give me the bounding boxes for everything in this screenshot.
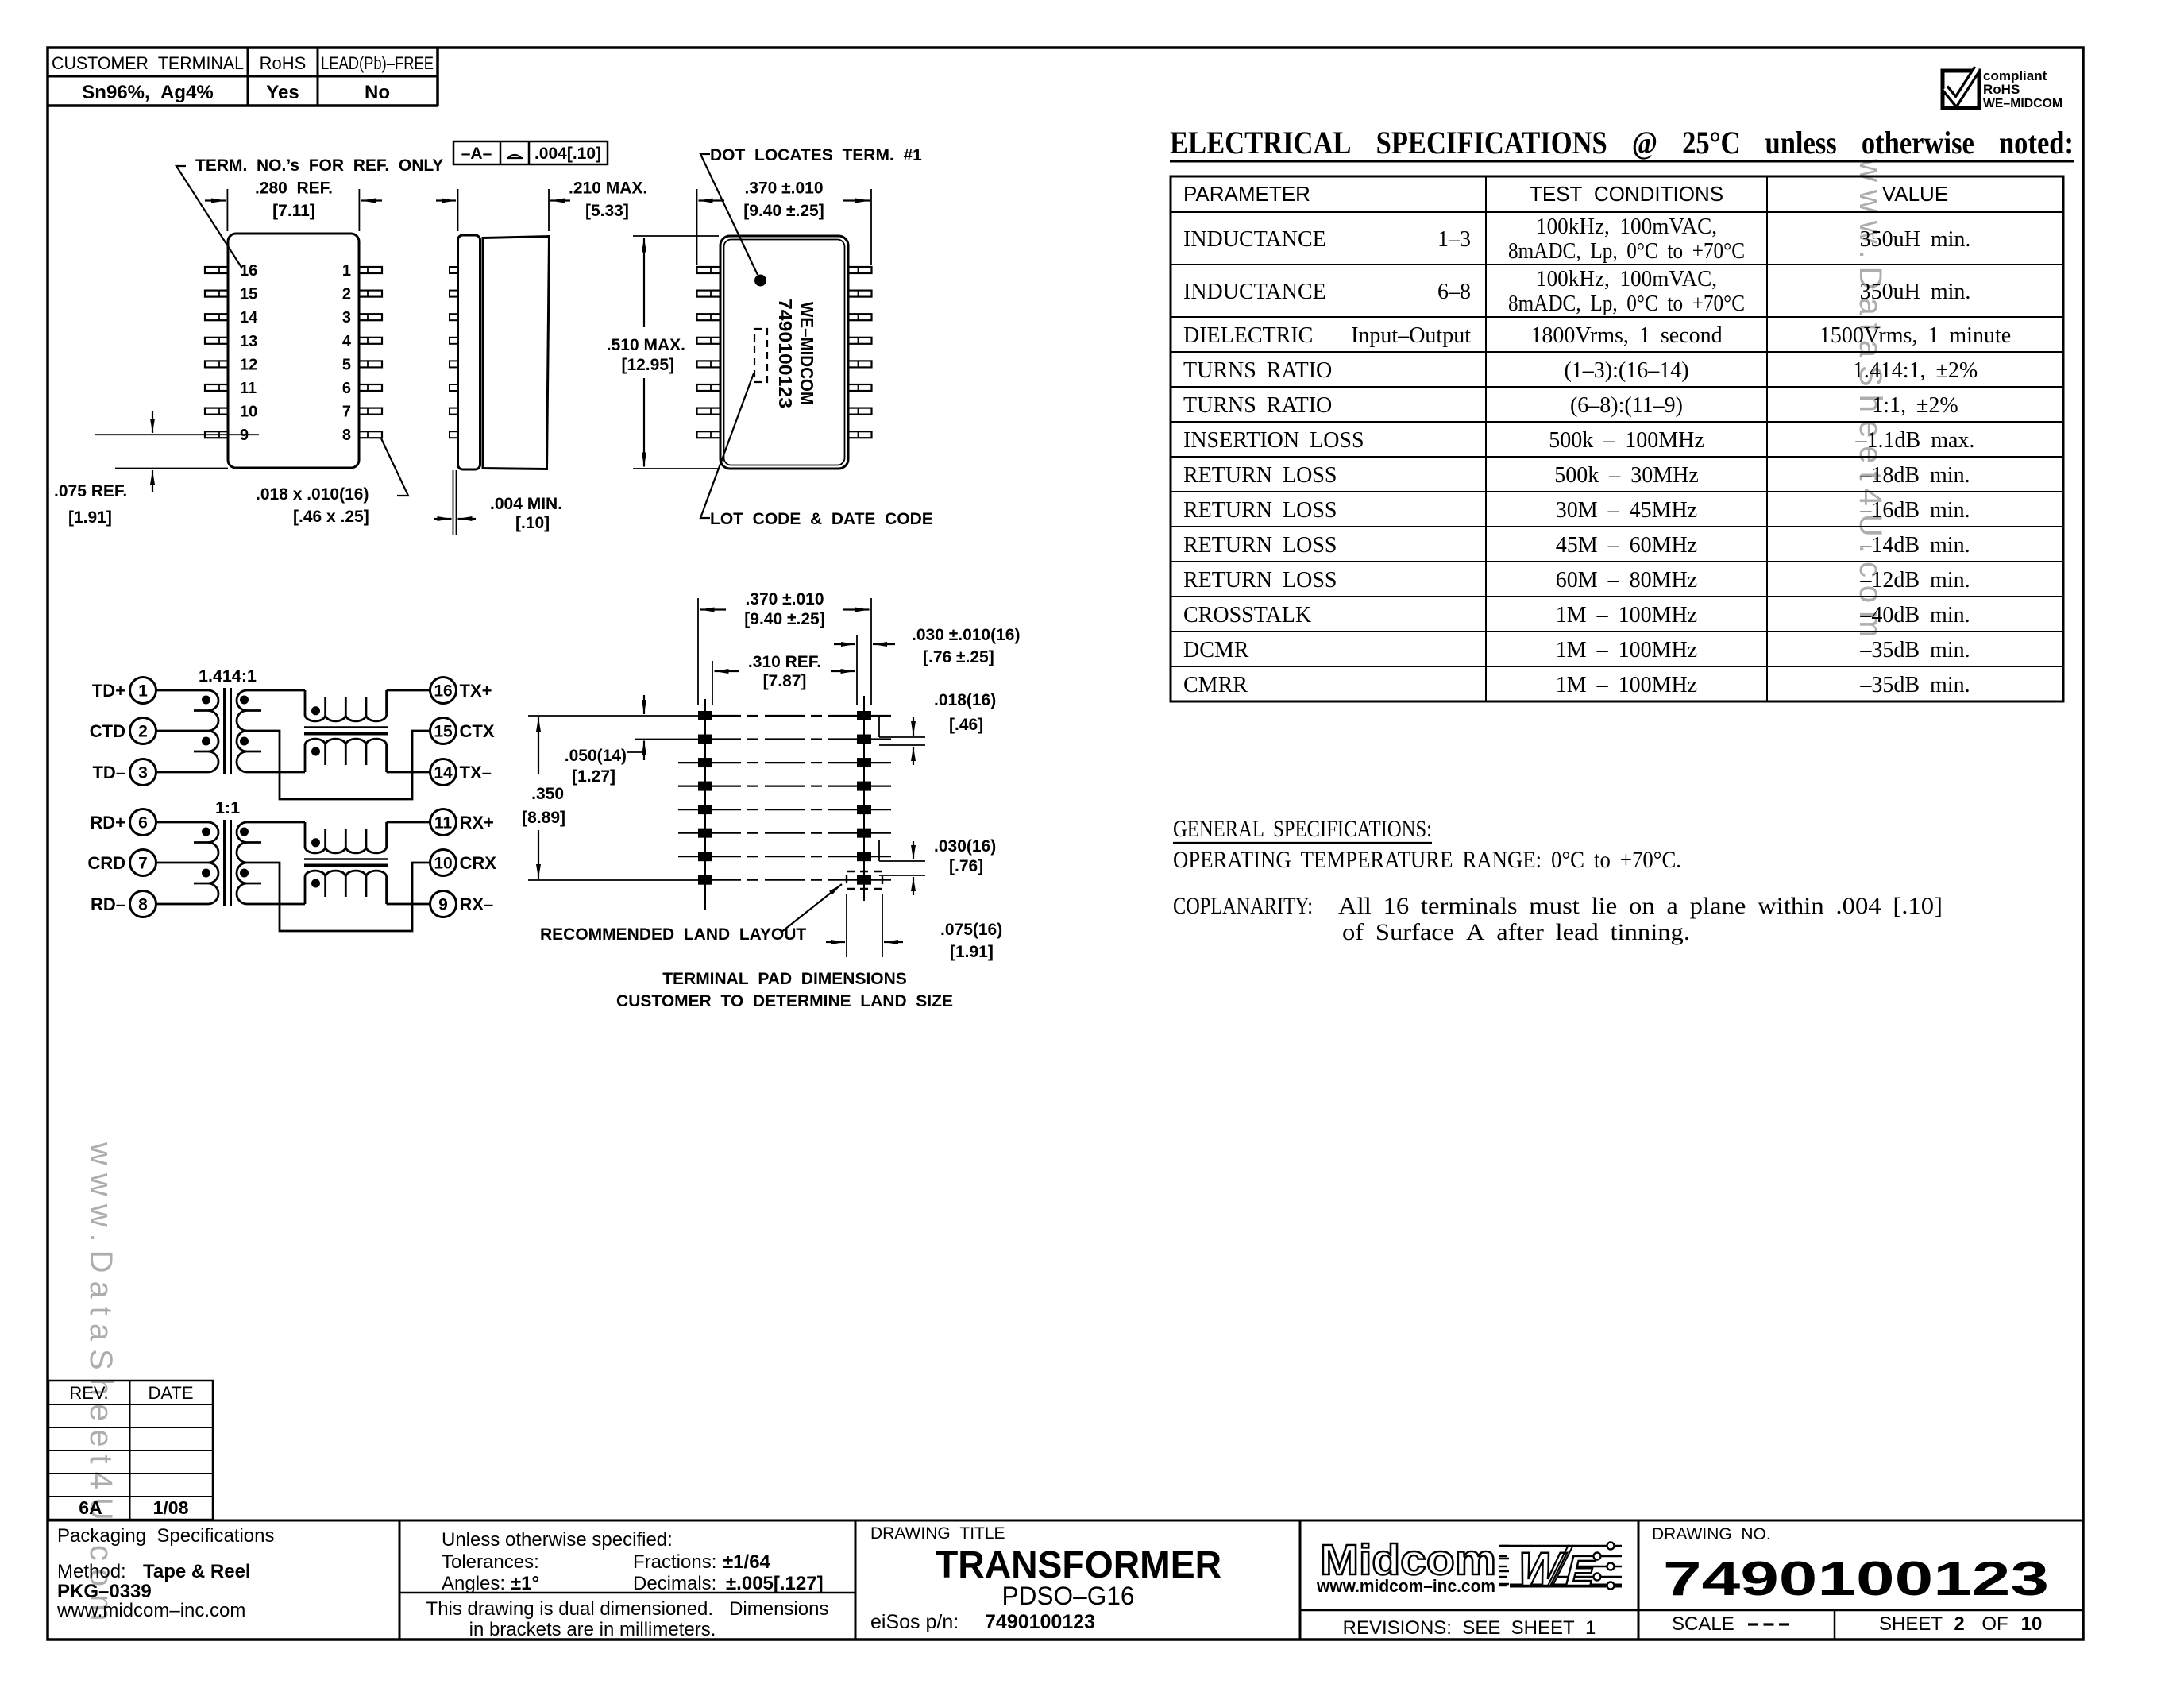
- pin 10 (CRX): [430, 850, 457, 876]
- extension lines .370 and .310: [697, 598, 699, 705]
- svg-text:REVISIONS: SEE SHEET 1: REVISIONS: SEE SHEET 1: [1343, 1617, 1596, 1639]
- svg-text:RETURN LOSS: RETURN LOSS: [1183, 533, 1337, 558]
- svg-text:.310 REF.: .310 REF.: [748, 653, 821, 671]
- svg-text:350uH min.: 350uH min.: [1860, 227, 1971, 252]
- svg-text:8: 8: [138, 896, 148, 914]
- svg-text:.030 ±.010(16): .030 ±.010(16): [912, 626, 1020, 644]
- svg-text:12: 12: [240, 356, 257, 373]
- svg-text:[.46]: [.46]: [949, 716, 983, 734]
- svg-text:TURNS RATIO: TURNS RATIO: [1183, 358, 1332, 383]
- svg-text:1:1: 1:1: [215, 798, 240, 817]
- svg-text:CRX: CRX: [460, 853, 497, 873]
- svg-text:16: 16: [434, 682, 452, 701]
- transformer secondary winding: [237, 690, 247, 772]
- pin 11 (RX+): [430, 809, 457, 836]
- view2 body right slab: [483, 237, 550, 469]
- svg-text:7490100123: 7490100123: [1663, 1552, 2049, 1605]
- land pads left column: [698, 711, 712, 720]
- svg-text:VALUE: VALUE: [1882, 182, 1948, 206]
- svg-text:1.414:1: 1.414:1: [199, 666, 257, 686]
- wire choke to pin 16: [387, 689, 430, 692]
- lot code dashed box: [754, 329, 767, 382]
- dimension .210 MAX: [457, 189, 459, 231]
- svg-text:11: 11: [240, 380, 257, 397]
- view1 pins left: [205, 267, 228, 273]
- svg-text:10: 10: [434, 855, 452, 873]
- svg-text:9: 9: [240, 427, 249, 444]
- pin 16 (TX+): [430, 678, 457, 704]
- wire center tap to pin 15: [247, 731, 430, 799]
- wire secondary bottom to choke: [247, 903, 305, 906]
- svg-text:OF: OF: [1981, 1613, 2008, 1635]
- svg-text:350uH min.: 350uH min.: [1860, 280, 1971, 304]
- svg-text:–14dB min.: –14dB min.: [1859, 533, 1970, 558]
- svg-text:13: 13: [240, 333, 257, 350]
- svg-text:.050(14): .050(14): [565, 747, 627, 765]
- svg-text:Yes: Yes: [266, 82, 299, 103]
- svg-text:±1°: ±1°: [511, 1573, 539, 1594]
- svg-text:CRD: CRD: [87, 853, 125, 873]
- RoHS compliant logo: [1943, 71, 1979, 108]
- svg-text:OPERATING TEMPERATURE RANGE: 0: OPERATING TEMPERATURE RANGE: 0°C to +70°…: [1173, 847, 1681, 873]
- land pad column verticals: [704, 699, 706, 910]
- wire pin 1 to primary: [156, 689, 209, 692]
- choke lower polarity dot: [311, 747, 320, 756]
- svg-text:100kHz, 100mVAC,: 100kHz, 100mVAC,: [1536, 267, 1717, 292]
- svg-text:Method:: Method:: [57, 1561, 126, 1582]
- svg-text:14: 14: [240, 309, 258, 326]
- svg-text:RD–: RD–: [91, 894, 125, 914]
- svg-text:COPLANARITY:: COPLANARITY:: [1173, 893, 1313, 919]
- svg-text:±1/64: ±1/64: [723, 1551, 771, 1573]
- svg-text:(1–3):(16–14): (1–3):(16–14): [1564, 358, 1688, 383]
- svg-text:16: 16: [240, 262, 257, 280]
- svg-text:DRAWING TITLE: DRAWING TITLE: [870, 1524, 1005, 1543]
- svg-text:6–8: 6–8: [1437, 280, 1471, 304]
- wire choke to pin 14: [387, 771, 430, 774]
- svg-text:.030(16): .030(16): [934, 837, 996, 856]
- view2 body left slab: [458, 235, 480, 469]
- svg-text:of Surface A after lead tinnin: of Surface A after lead tinning.: [1342, 919, 1690, 945]
- svg-text:–40dB min.: –40dB min.: [1859, 603, 1970, 628]
- svg-text:Angles:: Angles:: [442, 1573, 511, 1594]
- dimension .030 bottom: [878, 840, 880, 861]
- view1 pins right: [359, 267, 382, 273]
- wire pin 6 to primary: [156, 821, 209, 824]
- dimension .004 MIN: [453, 470, 454, 535]
- svg-text:RETURN LOSS: RETURN LOSS: [1183, 463, 1337, 488]
- dimension .050(14): [635, 739, 698, 740]
- wire pin 3 to primary: [156, 771, 209, 774]
- primary polarity dots: [202, 828, 210, 836]
- svg-text:Decimals:: Decimals:: [633, 1573, 722, 1594]
- svg-text:[7.11]: [7.11]: [272, 202, 315, 220]
- svg-text:15: 15: [434, 723, 453, 741]
- title band frame: [48, 1520, 2083, 1522]
- svg-text:1.414:1, ±2%: 1.414:1, ±2%: [1853, 358, 1978, 383]
- svg-text:CTX: CTX: [460, 721, 495, 741]
- svg-text:No: No: [365, 82, 390, 103]
- svg-text:500k – 30MHz: 500k – 30MHz: [1554, 463, 1699, 488]
- svg-text:DIELECTRIC: DIELECTRIC: [1183, 323, 1313, 348]
- transformer primary winding: [208, 822, 218, 904]
- svg-text:9: 9: [438, 896, 448, 914]
- svg-text:1: 1: [342, 262, 351, 280]
- wire pin 8 to primary: [156, 903, 209, 906]
- svg-text:2: 2: [138, 723, 148, 741]
- svg-text:–12dB min.: –12dB min.: [1859, 568, 1970, 593]
- dimension .280 REF: [226, 189, 228, 231]
- common-mode choke upper winding: [305, 822, 387, 853]
- choke upper polarity dot: [311, 838, 320, 847]
- svg-text:REV.: REV.: [69, 1383, 108, 1403]
- dimension .030 top: [834, 643, 855, 645]
- svg-text:PKG–0339: PKG–0339: [57, 1581, 152, 1602]
- svg-text:.018(16): .018(16): [934, 691, 996, 709]
- wire pin 2 to primary center tap: [156, 730, 209, 732]
- svg-text:[.10]: [.10]: [515, 514, 550, 532]
- choke core: [304, 726, 388, 728]
- svg-text:TEST CONDITIONS: TEST CONDITIONS: [1530, 182, 1723, 206]
- svg-text:[1.91]: [1.91]: [950, 943, 994, 961]
- svg-text:[5.33]: [5.33]: [585, 202, 629, 220]
- secondary polarity dots: [240, 696, 249, 705]
- svg-text:5: 5: [342, 356, 351, 373]
- svg-text:15: 15: [240, 286, 257, 303]
- svg-text:eiSos p/n:: eiSos p/n:: [870, 1611, 959, 1633]
- svg-text:.018 x .010(16): .018 x .010(16): [256, 485, 369, 504]
- wire secondary top to choke: [247, 821, 305, 824]
- wire center tap to pin 10: [247, 863, 430, 931]
- part marking text: [775, 299, 817, 408]
- svg-text:TD–: TD–: [92, 763, 125, 782]
- svg-text:–1.1dB max.: –1.1dB max.: [1855, 428, 1975, 453]
- svg-text:PARAMETER: PARAMETER: [1183, 182, 1310, 206]
- svg-text:TURNS RATIO: TURNS RATIO: [1183, 393, 1332, 418]
- svg-text:SCALE: SCALE: [1672, 1613, 1734, 1635]
- svg-text:Sn96%, Ag4%: Sn96%, Ag4%: [82, 82, 213, 103]
- dimension .018: [878, 717, 880, 737]
- svg-text:RoHS: RoHS: [1983, 82, 2020, 97]
- svg-text:TX+: TX+: [460, 681, 492, 701]
- svg-text:4: 4: [342, 333, 352, 350]
- svg-text:Input–Output: Input–Output: [1351, 323, 1471, 348]
- svg-text:Packaging Specifications: Packaging Specifications: [57, 1525, 275, 1547]
- secondary polarity dots: [240, 828, 249, 836]
- svg-text:±.005[.127]: ±.005[.127]: [726, 1573, 824, 1594]
- wire secondary top to choke: [247, 689, 305, 692]
- svg-text:[9.40 ±.25]: [9.40 ±.25]: [743, 202, 824, 220]
- svg-text:RX–: RX–: [460, 894, 494, 914]
- svg-text:.004[.10]: .004[.10]: [534, 145, 601, 163]
- svg-text:8mADC, Lp, 0°C to +70°C: 8mADC, Lp, 0°C to +70°C: [1508, 239, 1745, 264]
- svg-text:.280 REF.: .280 REF.: [255, 180, 333, 198]
- svg-text:[1.27]: [1.27]: [572, 767, 615, 786]
- svg-text:PDSO–G16: PDSO–G16: [1002, 1582, 1135, 1610]
- pin 15 (CTX): [430, 718, 457, 744]
- datum feature box -A-: [453, 141, 608, 164]
- view3 pins right: [848, 267, 872, 273]
- svg-text:TX–: TX–: [460, 763, 492, 782]
- svg-text:1M – 100MHz: 1M – 100MHz: [1556, 673, 1697, 697]
- svg-text:INDUCTANCE: INDUCTANCE: [1183, 280, 1326, 304]
- svg-text:7: 7: [342, 404, 351, 421]
- svg-text:[12.95]: [12.95]: [621, 356, 674, 374]
- primary polarity dots: [202, 696, 210, 705]
- svg-text:7490100123: 7490100123: [775, 299, 796, 408]
- svg-text:LEAD(Pb)–FREE: LEAD(Pb)–FREE: [321, 53, 434, 73]
- svg-text:[7.87]: [7.87]: [763, 672, 807, 690]
- svg-text:11: 11: [434, 814, 453, 832]
- dimension .075 REF: [95, 434, 259, 435]
- svg-text:6: 6: [138, 814, 148, 832]
- transformer secondary winding: [237, 822, 247, 904]
- svg-text:[9.40 ±.25]: [9.40 ±.25]: [744, 610, 824, 628]
- svg-text:CMRR: CMRR: [1183, 673, 1248, 697]
- svg-text:CTD: CTD: [90, 721, 125, 741]
- svg-text:CUSTOMER TERMINAL: CUSTOMER TERMINAL: [52, 53, 244, 73]
- svg-text:.075(16): .075(16): [940, 921, 1002, 939]
- svg-text:–A–: –A–: [461, 145, 492, 163]
- svg-text:8: 8: [342, 427, 351, 444]
- svg-text:Unless otherwise specified:: Unless otherwise specified:: [442, 1529, 673, 1551]
- svg-text:.350: .350: [531, 785, 564, 803]
- transformer primary winding: [208, 690, 218, 772]
- svg-text:DRAWING NO.: DRAWING NO.: [1652, 1525, 1771, 1543]
- svg-text:[8.89]: [8.89]: [522, 809, 565, 827]
- svg-text:–35dB min.: –35dB min.: [1859, 673, 1970, 697]
- svg-text:1M – 100MHz: 1M – 100MHz: [1556, 638, 1697, 662]
- svg-text:RD+: RD+: [90, 813, 125, 832]
- land layout center lines (dash-dot): [712, 715, 741, 717]
- svg-text:2: 2: [1954, 1613, 1964, 1635]
- common-mode choke lower winding: [305, 739, 387, 772]
- svg-text:(6–8):(11–9): (6–8):(11–9): [1570, 393, 1683, 418]
- svg-text:CROSSTALK: CROSSTALK: [1183, 603, 1311, 628]
- svg-text:ELECTRICAL SPECIFICATIONS @: ELECTRICAL SPECIFICATIONS @ 25°C unless …: [1170, 125, 2074, 160]
- svg-text:RoHS: RoHS: [260, 53, 307, 73]
- common-mode choke lower winding: [305, 871, 387, 904]
- svg-text:6A: 6A: [79, 1497, 102, 1518]
- customer terminal table: [48, 75, 438, 78]
- svg-text:30M – 45MHz: 30M – 45MHz: [1556, 498, 1697, 523]
- svg-text:1/08: 1/08: [153, 1497, 189, 1518]
- wire choke to pin 11: [387, 821, 430, 824]
- svg-text:500k – 100MHz: 500k – 100MHz: [1549, 428, 1704, 453]
- terminal 1 locating dot: [754, 275, 766, 287]
- svg-text:3: 3: [342, 309, 351, 326]
- svg-text:.004 MIN.: .004 MIN.: [490, 495, 562, 513]
- svg-text:1: 1: [138, 682, 148, 701]
- svg-text:Fractions:: Fractions:: [633, 1551, 722, 1573]
- svg-text:14: 14: [434, 764, 453, 782]
- svg-text:TERMINAL PAD DIMENSIONS: TERMINAL PAD DIMENSIONS: [662, 970, 907, 988]
- svg-text:INDUCTANCE: INDUCTANCE: [1183, 227, 1326, 252]
- svg-text:GENERAL SPECIFICATIONS:: GENERAL SPECIFICATIONS:: [1173, 816, 1432, 842]
- svg-text:DCMR: DCMR: [1183, 638, 1249, 662]
- view3 package body: [720, 236, 848, 469]
- choke upper polarity dot: [311, 706, 320, 715]
- svg-text:1M – 100MHz: 1M – 100MHz: [1556, 603, 1697, 628]
- land pads right column: [857, 711, 871, 720]
- svg-text:2: 2: [342, 286, 351, 303]
- svg-text:DOT LOCATES TERM. #1: DOT LOCATES TERM. #1: [710, 146, 922, 164]
- svg-text:[.46 x .25]: [.46 x .25]: [293, 508, 369, 526]
- svg-text:7: 7: [138, 855, 148, 873]
- svg-text:[1.91]: [1.91]: [68, 508, 112, 527]
- svg-text:www.midcom–inc.com: www.midcom–inc.com: [56, 1600, 245, 1621]
- wire secondary bottom to choke: [247, 771, 305, 774]
- svg-text:–18dB min.: –18dB min.: [1859, 463, 1970, 488]
- svg-text:WE–MIDCOM: WE–MIDCOM: [797, 302, 817, 405]
- svg-text:INSERTION LOSS: INSERTION LOSS: [1183, 428, 1364, 453]
- svg-text:Tape & Reel: Tape & Reel: [143, 1561, 251, 1582]
- dashed box around pad: [847, 871, 882, 889]
- choke core: [304, 858, 388, 860]
- svg-text:DATE: DATE: [148, 1383, 193, 1403]
- svg-text:1:1, ±2%: 1:1, ±2%: [1872, 393, 1958, 418]
- transformer core: [223, 820, 226, 906]
- pin 14 (TX-): [430, 759, 457, 786]
- svg-text:1–3: 1–3: [1437, 227, 1471, 252]
- wire choke to pin 9: [387, 903, 430, 906]
- view1 package body: [228, 234, 359, 468]
- dimension .510 MAX: [633, 235, 719, 237]
- view3 pins left: [697, 267, 721, 273]
- svg-text:TD+: TD+: [92, 681, 125, 701]
- svg-text:WE–MIDCOM: WE–MIDCOM: [1983, 97, 2062, 110]
- svg-text:10: 10: [2021, 1613, 2043, 1635]
- svg-text:7490100123: 7490100123: [985, 1611, 1095, 1633]
- svg-text:RECOMMENDED LAND LAYOUT: RECOMMENDED LAND LAYOUT: [540, 925, 806, 944]
- dimension .310 REF: [715, 670, 739, 672]
- svg-text:in brackets are in millimeters: in brackets are in millimeters.: [469, 1619, 716, 1640]
- svg-text:3: 3: [138, 764, 148, 782]
- svg-text:Tolerances:: Tolerances:: [442, 1551, 539, 1573]
- dimension .370 (land): [700, 608, 727, 610]
- svg-text:CUSTOMER TO DETERMINE LAND: CUSTOMER TO DETERMINE LAND SIZE: [616, 992, 953, 1010]
- svg-text:1800Vrms, 1 second: 1800Vrms, 1 second: [1530, 323, 1722, 348]
- svg-text:100kHz, 100mVAC,: 100kHz, 100mVAC,: [1536, 214, 1717, 239]
- svg-text:–35dB min.: –35dB min.: [1859, 638, 1970, 662]
- svg-text:[.76 ±.25]: [.76 ±.25]: [923, 648, 994, 666]
- logo circuit traces: [1501, 1545, 1622, 1547]
- svg-text:10: 10: [240, 404, 257, 421]
- svg-text:TRANSFORMER: TRANSFORMER: [936, 1544, 1221, 1586]
- svg-text:RETURN LOSS: RETURN LOSS: [1183, 498, 1337, 523]
- svg-text:45M – 60MHz: 45M – 60MHz: [1556, 533, 1697, 558]
- svg-text:8mADC, Lp, 0°C to +70°C: 8mADC, Lp, 0°C to +70°C: [1508, 292, 1745, 316]
- dimension .018 x .010(16): [381, 438, 408, 496]
- svg-text:.075 REF.: .075 REF.: [54, 482, 127, 500]
- svg-text:60M – 80MHz: 60M – 80MHz: [1556, 568, 1697, 593]
- pin 9 (RX-): [430, 891, 457, 917]
- dimension .370 (view3): [696, 189, 698, 265]
- revision table: [48, 1381, 213, 1520]
- svg-text:.370 ±.010: .370 ±.010: [744, 180, 823, 198]
- svg-text:All 16 terminals must lie on a: All 16 terminals must lie on a plane wit…: [1338, 893, 1943, 919]
- svg-text:RX+: RX+: [460, 813, 494, 832]
- svg-text:6: 6: [342, 380, 351, 397]
- svg-text:TERM. NO.’s FOR REF. ONLY: TERM. NO.’s FOR REF. ONLY: [195, 156, 443, 175]
- svg-text:This drawing is dual dimension: This drawing is dual dimensioned. Dimens…: [426, 1598, 829, 1620]
- svg-text:.210 MAX.: .210 MAX.: [569, 180, 647, 198]
- svg-text:SHEET: SHEET: [1879, 1613, 1943, 1635]
- svg-text:–16dB min.: –16dB min.: [1859, 498, 1970, 523]
- watermark left: [83, 1141, 118, 1628]
- spec table grid: [1171, 176, 2063, 701]
- svg-text:1500Vrms, 1 minute: 1500Vrms, 1 minute: [1819, 323, 2011, 348]
- dimension .075: [846, 894, 847, 957]
- choke lower polarity dot: [311, 879, 320, 888]
- watermark right: [1853, 158, 1888, 645]
- dimension .350: [528, 879, 698, 881]
- svg-text:.510 MAX.: .510 MAX.: [607, 336, 685, 354]
- svg-text:LOT CODE & DATE CODE: LOT CODE & DATE CODE: [710, 510, 933, 528]
- view2 pins: [450, 267, 458, 273]
- svg-text:RETURN LOSS: RETURN LOSS: [1183, 568, 1337, 593]
- transformer core: [223, 688, 226, 774]
- svg-text:.370 ±.010: .370 ±.010: [745, 590, 824, 608]
- svg-text:www.midcom–inc.com: www.midcom–inc.com: [1316, 1576, 1495, 1596]
- wire pin 7 to primary center tap: [156, 862, 209, 864]
- svg-text:[.76]: [.76]: [949, 857, 983, 875]
- common-mode choke upper winding: [305, 690, 387, 721]
